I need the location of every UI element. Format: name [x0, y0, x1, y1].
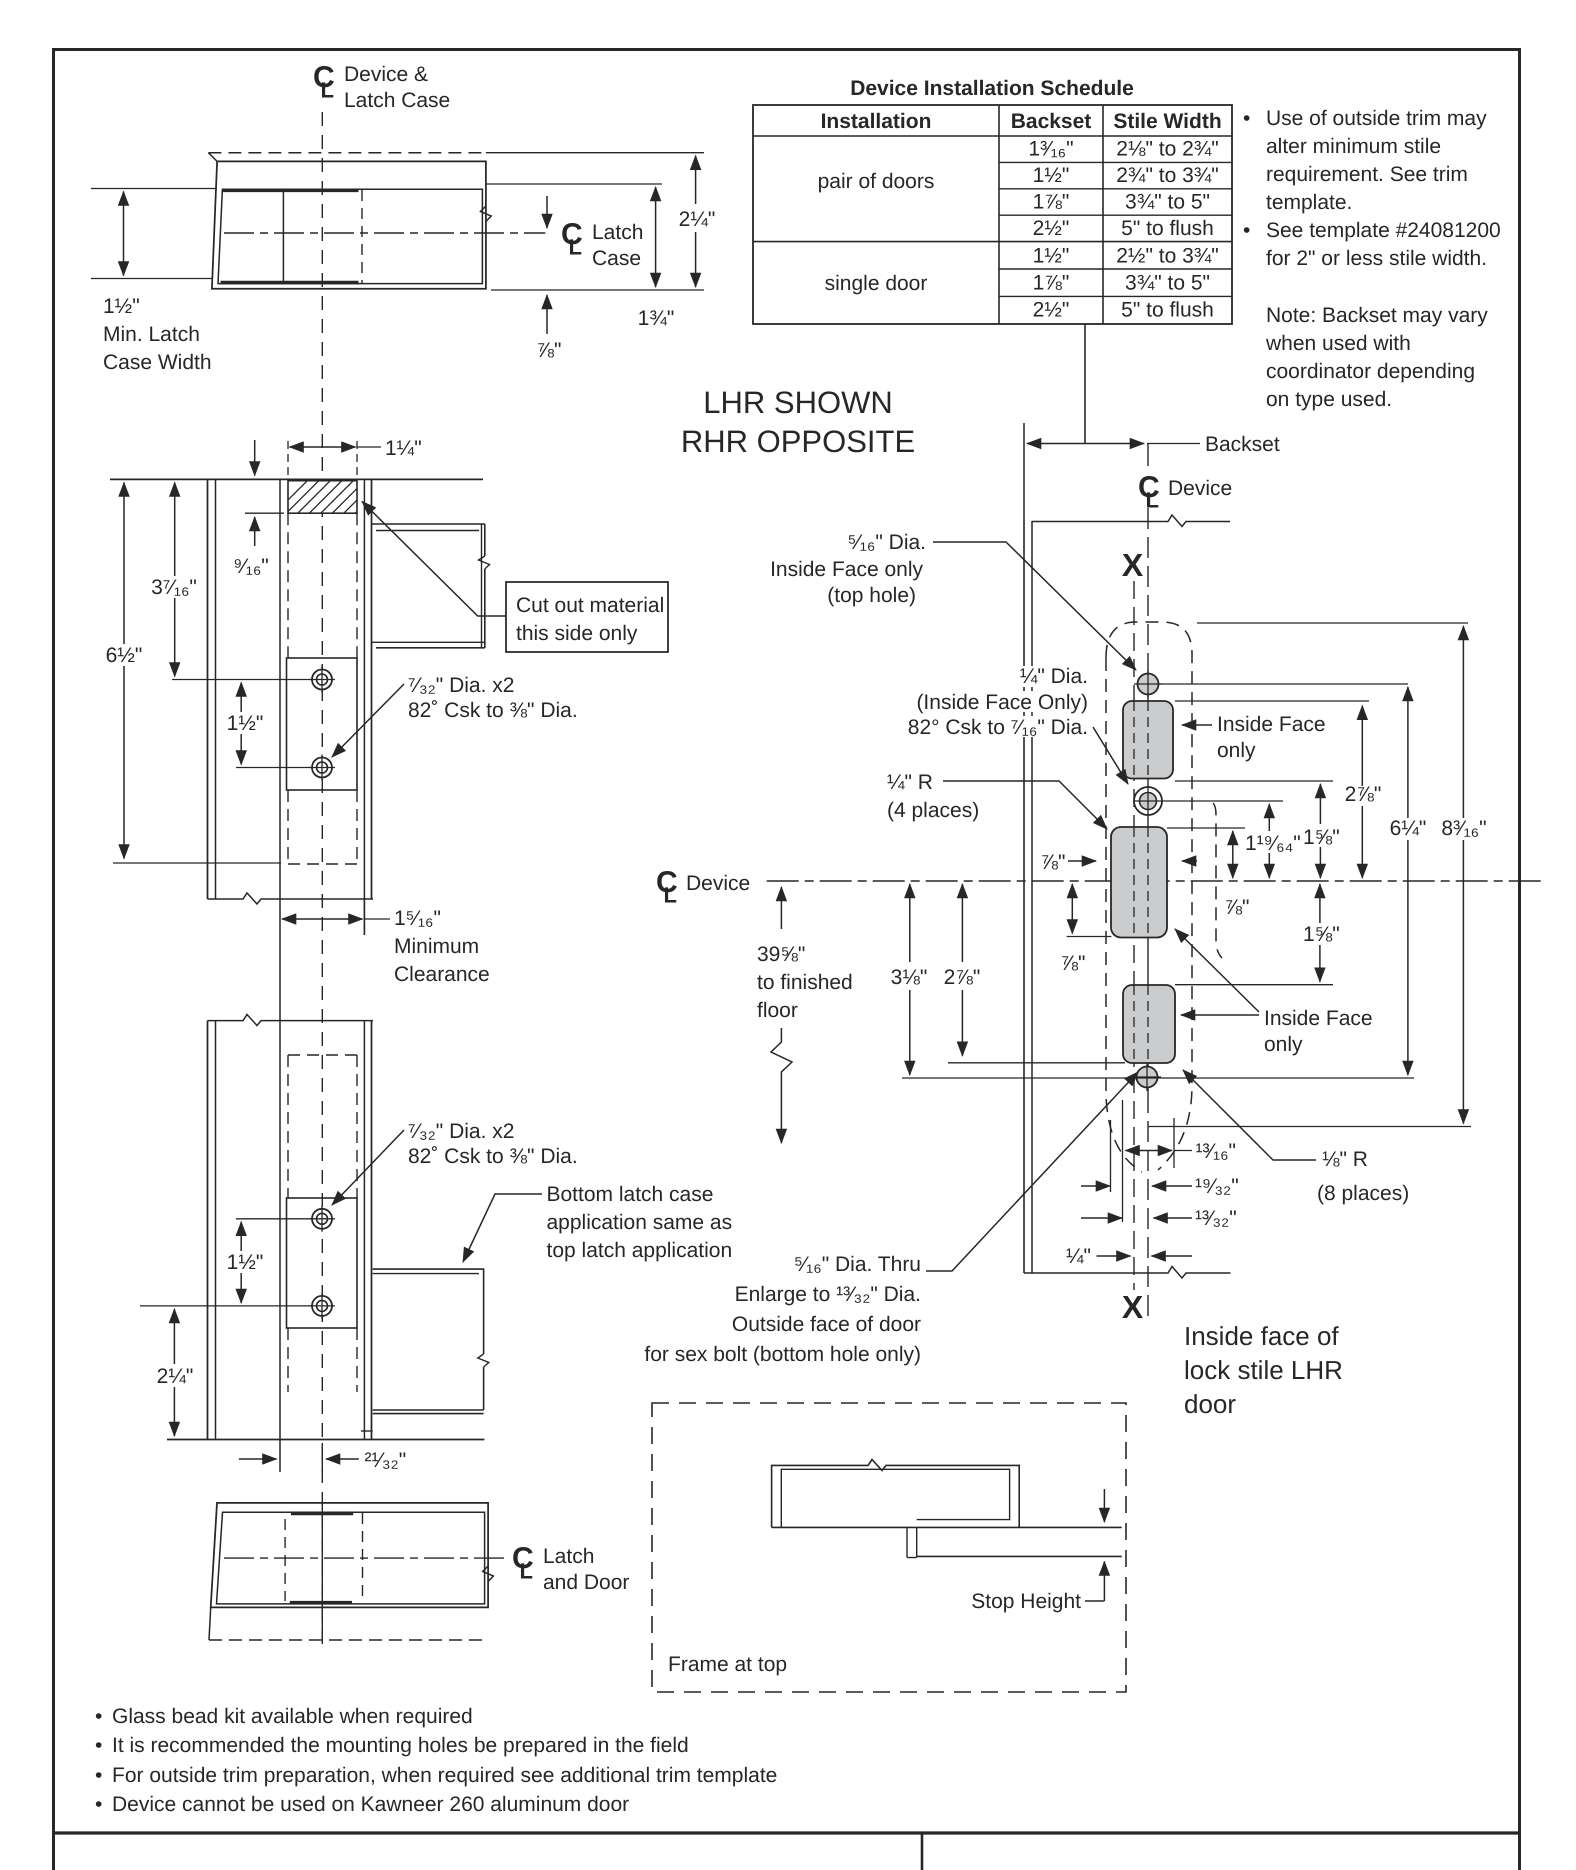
top latch case dashed door outline	[208, 153, 486, 162]
svg-text:Latch: Latch	[592, 221, 643, 244]
svg-text:⁷⁄₃₂" Dia. x2: ⁷⁄₃₂" Dia. x2	[408, 674, 514, 697]
svg-text:RHR OPPOSITE: RHR OPPOSITE	[681, 424, 915, 459]
dim 7/8 below CL left	[1061, 884, 1086, 975]
extension 8-3/16 bottom	[1148, 1126, 1471, 1128]
svg-text:Stile Width: Stile Width	[1113, 110, 1221, 133]
dim 1-1/2 min latch case width	[91, 189, 217, 375]
dim stop height	[971, 1489, 1104, 1613]
svg-text:²¹⁄₃₂": ²¹⁄₃₂"	[365, 1449, 407, 1472]
right stile left skin	[1024, 519, 1032, 1273]
device vertical centerline	[321, 112, 323, 1650]
svg-text:2¾" to 3¾": 2¾" to 3¾"	[1116, 164, 1218, 187]
label 1/4 dia inside face	[905, 665, 1092, 739]
upper stile left skin	[208, 479, 216, 899]
svg-text:only: only	[1264, 1033, 1303, 1056]
svg-text:1¼": 1¼"	[385, 437, 422, 460]
CL device & latch case label	[313, 61, 450, 112]
arrow door top reference	[254, 440, 256, 476]
svg-text:2⅞": 2⅞"	[944, 966, 981, 989]
svg-text:5" to flush: 5" to flush	[1121, 299, 1214, 322]
extension pad P1 top	[1175, 700, 1369, 702]
svg-text:¼" R: ¼" R	[887, 771, 933, 794]
dim 2-1/4 top case	[679, 156, 716, 287]
svg-text:application same as: application same as	[547, 1211, 733, 1234]
bottom case hidden outline below	[209, 1607, 488, 1640]
dim 19/32	[1081, 1175, 1239, 1198]
svg-text:L: L	[569, 235, 582, 260]
extension pad P1 bottom	[1175, 780, 1333, 782]
svg-text:Note: Backset may vary: Note: Backset may vary	[1266, 304, 1488, 327]
leader inside face upper	[1182, 724, 1212, 726]
svg-text:¹⁹⁄₃₂": ¹⁹⁄₃₂"	[1195, 1175, 1239, 1198]
svg-text:1½": 1½"	[1033, 245, 1070, 268]
svg-text:Glass bead kit available when: Glass bead kit available when required	[112, 1705, 473, 1728]
upper stile inner web	[279, 479, 281, 1020]
LHR SHOWN heading	[681, 385, 915, 459]
svg-text:2¼": 2¼"	[679, 208, 716, 231]
right stile bottom break edge	[1024, 1267, 1231, 1279]
svg-text:1¾": 1¾"	[638, 307, 675, 330]
bottom small dim vertical refs	[1111, 1100, 1175, 1222]
hole 2 extension line	[236, 767, 311, 769]
svg-text:this side only: this side only	[516, 622, 638, 645]
dim 7/8 pad width	[1041, 851, 1197, 874]
extension 1-5/8 lower	[1175, 984, 1333, 986]
lower plate hole 2	[309, 1293, 335, 1319]
svg-text:(8 places): (8 places)	[1317, 1182, 1409, 1205]
extension hole H2	[1162, 800, 1283, 802]
extension top of device outline	[1197, 622, 1468, 624]
label 1/4 R 4 places	[887, 771, 979, 822]
svg-text:See template #24081200: See template #24081200	[1266, 219, 1501, 242]
svg-text:•: •	[95, 1734, 102, 1757]
label inside face of lock stile	[1184, 1321, 1343, 1419]
svg-text:82˚ Csk to ⅜" Dia.: 82˚ Csk to ⅜" Dia.	[408, 699, 578, 722]
svg-text:coordinator depending: coordinator depending	[1266, 360, 1475, 383]
leader 1/8 R	[1183, 1070, 1316, 1160]
svg-text:Backset: Backset	[1011, 110, 1092, 133]
svg-text:Case Width: Case Width	[103, 351, 212, 374]
svg-text:1½": 1½"	[227, 1251, 264, 1274]
svg-text:6½": 6½"	[106, 644, 143, 667]
svg-text:For outside trim preparation,: For outside trim preparation, when requi…	[112, 1764, 777, 1787]
svg-text:Stop Height: Stop Height	[971, 1590, 1081, 1613]
svg-text:Latch: Latch	[543, 1545, 594, 1568]
dim 3-7/16	[151, 483, 197, 677]
leader cut out material	[362, 502, 506, 617]
svg-text:Inside Face: Inside Face	[1264, 1007, 1373, 1030]
svg-text:⅛" R: ⅛" R	[1322, 1148, 1368, 1171]
svg-text:•: •	[1243, 219, 1250, 242]
svg-text:82˚ Csk to ⅜" Dia.: 82˚ Csk to ⅜" Dia.	[408, 1145, 578, 1168]
extension hole H3 long	[902, 1077, 1414, 1079]
svg-text:Clearance: Clearance	[394, 963, 490, 986]
table header text	[821, 110, 1222, 133]
upper latch plate	[287, 658, 358, 790]
lower hole extension lines	[140, 1219, 311, 1306]
dim 1-1/2 upper plate	[224, 683, 263, 765]
svg-text:¼": ¼"	[1066, 1245, 1091, 1268]
svg-text:requirement. See trim: requirement. See trim	[1266, 163, 1468, 186]
frame at top label	[668, 1653, 787, 1676]
lower cutout hidden edges	[288, 1055, 357, 1392]
svg-text:1¹⁹⁄₆₄": 1¹⁹⁄₆₄"	[1245, 832, 1301, 855]
svg-text:•: •	[1243, 107, 1250, 130]
svg-text:Frame at top: Frame at top	[668, 1653, 787, 1676]
dim 13/32	[1081, 1207, 1237, 1230]
svg-text:Device: Device	[1168, 477, 1232, 500]
frame at top dashed box	[652, 1403, 1126, 1692]
svg-text:X: X	[1122, 547, 1144, 583]
dim 2-7/8 right	[1345, 706, 1382, 878]
right skin extension into gap	[363, 899, 365, 935]
svg-text:Min. Latch: Min. Latch	[103, 323, 200, 346]
svg-text:¹³⁄₁₆": ¹³⁄₁₆"	[1196, 1140, 1237, 1163]
section line X-X	[1122, 547, 1144, 1325]
svg-text:1⅞": 1⅞"	[1033, 191, 1070, 214]
dim 1-1/4	[288, 437, 422, 478]
svg-text:on type used.: on type used.	[1266, 388, 1392, 411]
lower stile bottom edge	[167, 1439, 484, 1441]
svg-text:⁹⁄₁₆": ⁹⁄₁₆"	[233, 555, 269, 578]
device dashed outline	[1106, 622, 1222, 1172]
lower stile left skin	[208, 1021, 216, 1439]
svg-text:3¾" to 5": 3¾" to 5"	[1125, 191, 1210, 214]
pad P1	[1123, 701, 1173, 779]
door top edge	[110, 478, 483, 480]
lower plate hole 1	[309, 1206, 335, 1232]
svg-text:2½": 2½"	[1033, 299, 1070, 322]
svg-text:Installation: Installation	[821, 110, 932, 133]
svg-text:Backset: Backset	[1205, 433, 1280, 456]
svg-text:pair of doors: pair of doors	[818, 170, 935, 193]
device centerline vertical	[1147, 508, 1149, 1316]
svg-text:⅞": ⅞"	[1041, 851, 1066, 874]
svg-text:⅞": ⅞"	[1225, 896, 1250, 919]
bottom bullet notes	[95, 1705, 777, 1816]
svg-text:1⅝": 1⅝"	[1303, 826, 1340, 849]
dim 1-5/8 lower	[1301, 884, 1345, 982]
svg-text:Enlarge to ¹³⁄₃₂" Dia.: Enlarge to ¹³⁄₃₂" Dia.	[735, 1283, 921, 1306]
dim 1-5/16 minimum clearance	[282, 907, 490, 986]
table title	[850, 77, 1134, 100]
svg-text:alter minimum stile: alter minimum stile	[1266, 135, 1441, 158]
footer divider	[921, 1835, 924, 1870]
svg-text:and Door: and Door	[543, 1571, 629, 1594]
table body text	[818, 138, 1219, 322]
svg-text:It is recommended the mounting: It is recommended the mounting holes be …	[112, 1734, 689, 1757]
svg-text:Inside face of: Inside face of	[1184, 1321, 1339, 1351]
svg-text:Latch Case: Latch Case	[344, 89, 450, 112]
dim 7/8 top case	[537, 295, 562, 362]
leader inside face lower diagonal	[1175, 929, 1259, 1012]
svg-text:floor: floor	[757, 999, 798, 1022]
leader 5/16 dia thru	[926, 1072, 1138, 1271]
svg-text:2½": 2½"	[1033, 217, 1070, 240]
table-to-drawing connector	[1084, 324, 1086, 444]
notes bullets right	[1243, 107, 1501, 270]
arrow to latch case CL	[546, 196, 548, 228]
svg-text:LHR SHOWN: LHR SHOWN	[703, 385, 892, 420]
svg-text:¹³⁄₃₂": ¹³⁄₃₂"	[1195, 1207, 1237, 1230]
svg-text:82° Csk to ⁷⁄₁₆" Dia.: 82° Csk to ⁷⁄₁₆" Dia.	[908, 716, 1088, 739]
table grid	[753, 105, 1232, 324]
svg-text:3⅛": 3⅛"	[891, 966, 928, 989]
svg-text:for 2" or less stile width.: for 2" or less stile width.	[1266, 247, 1487, 270]
pad P3	[1123, 985, 1175, 1063]
svg-text:Bottom latch case: Bottom latch case	[547, 1183, 714, 1206]
upper cutout hidden edges	[288, 513, 357, 864]
svg-text:(4 places): (4 places)	[887, 799, 979, 822]
leader bottom latch case	[463, 1194, 542, 1262]
leader 1/4 R	[943, 781, 1107, 829]
CL latch and door label	[512, 1542, 629, 1594]
dim 6-1/4	[1390, 687, 1427, 1075]
svg-text:single door: single door	[825, 272, 928, 295]
svg-text:•: •	[95, 1764, 102, 1787]
svg-text:3⁷⁄₁₆": 3⁷⁄₁₆"	[151, 576, 197, 599]
svg-text:when used with: when used with	[1265, 332, 1411, 355]
svg-text:for sex bolt (bottom hole only: for sex bolt (bottom hole only)	[644, 1343, 921, 1366]
top case right extension lines	[486, 153, 704, 290]
svg-text:Case: Case	[592, 247, 641, 270]
top latch case outer body	[212, 161, 486, 288]
label 7/32 dia x2 (lower)	[408, 1120, 578, 1168]
svg-text:⅞": ⅞"	[1061, 952, 1086, 975]
leader 7/32 lower	[332, 1130, 404, 1205]
dim 1-3/4	[638, 187, 675, 330]
svg-text:•: •	[95, 1705, 102, 1728]
svg-text:template.: template.	[1266, 191, 1352, 214]
svg-text:Device &: Device &	[344, 63, 428, 86]
dim 21/32	[239, 1443, 406, 1472]
right stile top break edge	[1032, 515, 1230, 527]
label 7/32 dia x2 (upper)	[408, 674, 578, 722]
lower latch plate	[287, 1198, 358, 1328]
dim 1-5/8 upper	[1301, 784, 1345, 878]
svg-text:2½" to 3¾": 2½" to 3¾"	[1116, 245, 1218, 268]
lower stile top break edge	[208, 1015, 374, 1026]
dim 6-1/2	[106, 483, 281, 864]
extension pad P2 top	[1167, 827, 1245, 829]
svg-text:Cut out material: Cut out material	[516, 594, 664, 617]
svg-text:1½": 1½"	[103, 295, 140, 318]
latch and door horizontal centerline	[224, 1557, 506, 1559]
note backset may vary	[1265, 304, 1488, 411]
svg-text:•: •	[95, 1793, 102, 1816]
label 5/16 dia top hole	[770, 531, 926, 607]
glass stop profile upper	[372, 524, 490, 648]
top latch case inner body	[218, 189, 482, 283]
svg-text:Device cannot be used on Kawne: Device cannot be used on Kawneer 260 alu…	[112, 1793, 629, 1816]
backset dim	[1024, 423, 1280, 519]
label inside face only upper	[1217, 713, 1326, 762]
hole H3	[1133, 1063, 1161, 1091]
svg-text:1½": 1½"	[1033, 164, 1070, 187]
svg-text:3¾" to 5": 3¾" to 5"	[1125, 272, 1210, 295]
dim 7/8 right upper	[1225, 831, 1250, 919]
svg-text:39⅝": 39⅝"	[757, 943, 805, 966]
pad P2	[1111, 827, 1167, 938]
latch case horizontal centerline	[224, 232, 545, 234]
hole H2	[1134, 787, 1162, 815]
lower stile inner web	[279, 1021, 281, 1472]
dim 2-1/4 lower	[157, 1309, 194, 1436]
dim 13/16	[1126, 1140, 1237, 1163]
dim 9/16	[233, 513, 284, 578]
svg-text:(Inside Face Only): (Inside Face Only)	[916, 691, 1088, 714]
svg-text:⁵⁄₁₆" Dia. Thru: ⁵⁄₁₆" Dia. Thru	[794, 1253, 921, 1276]
bottom latch case outer body	[211, 1503, 488, 1608]
svg-text:L: L	[321, 78, 334, 103]
dim 1-1/2 lower plate	[224, 1222, 263, 1303]
upper stile bottom break edge	[208, 893, 374, 904]
svg-text:Outside face of door: Outside face of door	[732, 1313, 921, 1336]
glass stop profile lower	[361, 1269, 489, 1431]
svg-text:⁵⁄₁₆" Dia.: ⁵⁄₁₆" Dia.	[848, 531, 926, 554]
svg-text:L: L	[664, 883, 677, 908]
hole H1	[1134, 670, 1162, 698]
svg-text:Device Installation Schedule: Device Installation Schedule	[850, 77, 1134, 100]
svg-text:(top hole): (top hole)	[827, 584, 916, 607]
svg-text:2¼": 2¼"	[157, 1365, 194, 1388]
svg-text:Inside Face: Inside Face	[1217, 713, 1326, 736]
label 1/8 R 8 places	[1317, 1148, 1409, 1205]
device horizontal centerline	[767, 880, 1543, 882]
svg-text:top latch application: top latch application	[547, 1239, 733, 1262]
hole 1 extension line	[172, 679, 311, 681]
svg-text:Device: Device	[686, 872, 750, 895]
svg-text:X: X	[1122, 1289, 1144, 1325]
dim 1-19/64	[1243, 804, 1301, 878]
svg-text:1⁵⁄₁₆": 1⁵⁄₁₆"	[394, 907, 441, 930]
svg-text:1⅝": 1⅝"	[1303, 923, 1340, 946]
cut out material box	[506, 582, 668, 652]
footer rule	[52, 1831, 1521, 1834]
svg-text:⁷⁄₃₂" Dia. x2: ⁷⁄₃₂" Dia. x2	[408, 1120, 514, 1143]
dim 2-7/8 left	[944, 884, 981, 1056]
extension hole H1	[1158, 683, 1408, 685]
leader 5/16 top hole	[933, 542, 1136, 670]
extension pad P2 bottom left	[1067, 936, 1112, 938]
svg-text:Use of outside trim may: Use of outside trim may	[1266, 107, 1487, 130]
lower stile right skin	[364, 1021, 371, 1439]
svg-text:¼" Dia.: ¼" Dia.	[1020, 665, 1088, 688]
svg-text:2⅞": 2⅞"	[1345, 783, 1382, 806]
dim 39-5/8 to finished floor	[757, 887, 853, 1143]
svg-text:5" to flush: 5" to flush	[1121, 217, 1214, 240]
leader 1/4 dia	[1093, 727, 1128, 784]
label bottom latch case application	[547, 1183, 733, 1262]
svg-text:8³⁄₁₆": 8³⁄₁₆"	[1441, 817, 1486, 840]
upper plate hole 2	[309, 755, 335, 781]
CL device label left	[656, 866, 750, 908]
svg-text:1⅞": 1⅞"	[1033, 272, 1070, 295]
leader inside face lower horizontal	[1181, 1014, 1259, 1016]
svg-text:Minimum: Minimum	[394, 935, 479, 958]
extension pad P3 bottom / 2-7/8	[948, 1062, 1125, 1064]
svg-text:1³⁄₁₆": 1³⁄₁₆"	[1028, 138, 1073, 161]
dim 3-1/8	[891, 884, 928, 1075]
hatched cutout block	[272, 478, 414, 516]
svg-text:6¼": 6¼"	[1390, 817, 1427, 840]
svg-text:L: L	[520, 1559, 533, 1584]
upper stile right skin	[364, 479, 371, 935]
svg-text:door: door	[1184, 1389, 1236, 1419]
svg-text:Inside Face only: Inside Face only	[770, 558, 923, 581]
svg-text:2⅛" to 2¾": 2⅛" to 2¾"	[1116, 138, 1218, 161]
svg-text:⅞": ⅞"	[537, 339, 562, 362]
svg-text:lock stile LHR: lock stile LHR	[1184, 1355, 1343, 1385]
label 5/16 dia thru	[644, 1253, 921, 1366]
CL latch case label	[561, 218, 643, 270]
bottom latch case right-edge break	[483, 1566, 494, 1582]
leader 7/32 upper	[332, 684, 404, 757]
top latch case right-edge break	[481, 206, 492, 222]
dim 1/4 bottom	[1066, 1245, 1192, 1268]
label inside face only lower	[1264, 1007, 1373, 1056]
dim 8-3/16	[1441, 626, 1486, 1124]
bottom latch case inner body	[217, 1503, 485, 1640]
upper plate hole 1	[309, 667, 335, 693]
svg-text:1½": 1½"	[227, 712, 264, 735]
svg-text:to finished: to finished	[757, 971, 853, 994]
svg-text:only: only	[1217, 739, 1256, 762]
CL device label top	[1138, 471, 1232, 513]
frame head profile	[772, 1460, 1122, 1558]
pad inner hidden lines	[1134, 701, 1148, 1063]
